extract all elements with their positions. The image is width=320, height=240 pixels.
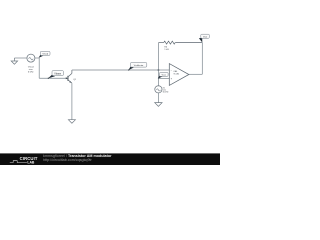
net flag Vcollect (box3) — [128, 63, 147, 71]
svg-text:1 kΩ: 1 kΩ — [164, 49, 169, 51]
voltage source Vmod (sine 6 kHz) — [27, 54, 35, 62]
svg-text:Vbase: Vbase — [54, 72, 61, 75]
Vmod value text — [28, 66, 34, 73]
emitter diagonal with arrow — [68, 80, 72, 83]
base arrowhead — [66, 77, 68, 79]
wire ground to Vmod source — [14, 57, 26, 59]
svg-text:Vmod: Vmod — [42, 54, 48, 56]
net flag Vbase (box2) — [48, 71, 64, 79]
CircuitLab logo — [10, 156, 38, 165]
svg-text:TL082: TL082 — [173, 74, 180, 76]
ground GND2 (below Q1 emitter) — [68, 120, 75, 124]
wire collector to right vertical (node) — [72, 69, 159, 71]
op-amp OA1 TL082 — [169, 64, 189, 86]
voltage source V1 (60 kHz carrier) — [155, 86, 162, 93]
bar — [67, 76, 70, 81]
net flag Vplus (box4) — [158, 72, 168, 78]
bottom bar — [0, 153, 220, 165]
wire up to resistor level — [201, 43, 203, 75]
output wire apex to right corner — [189, 73, 202, 75]
svg-text:Vcar: Vcar — [162, 74, 167, 77]
transistor Q1 (NPN) — [66, 70, 77, 120]
svg-text:LAB: LAB — [27, 160, 35, 164]
wire Vmod to corner — [35, 57, 39, 59]
collector diagonal — [68, 73, 72, 76]
net flag Vout (box5) — [199, 34, 209, 42]
net flag Vmod (box1) — [39, 51, 50, 58]
svg-text:Vout: Vout — [203, 36, 208, 39]
info text — [43, 154, 112, 162]
wire to op-amp plus input — [159, 78, 170, 80]
svg-text:60 kHz: 60 kHz — [163, 92, 169, 94]
wire corner down to base line — [38, 58, 40, 78]
svg-text:6 kHz: 6 kHz — [28, 71, 34, 73]
wire base line — [39, 77, 66, 79]
wire to op-amp minus input — [159, 69, 170, 71]
svg-text:http://circuitlab.com/cqsgkq9t: http://circuitlab.com/cqsgkq9tr — [43, 158, 93, 162]
resistor Rb 1 kOhm — [159, 41, 203, 44]
vertical wire Rb / V1 — [158, 43, 160, 87]
wire V1 to ground — [157, 93, 159, 103]
junction node at vertical wire — [158, 69, 160, 71]
ground GND1 (left of Vmod) — [11, 58, 17, 64]
ground GND3 (below V1) — [155, 103, 162, 107]
svg-text:Vcollector: Vcollector — [134, 64, 144, 67]
